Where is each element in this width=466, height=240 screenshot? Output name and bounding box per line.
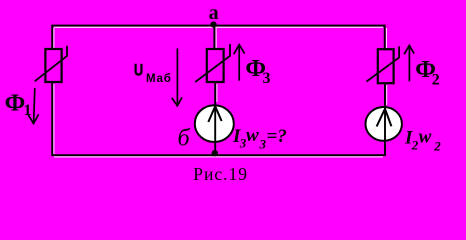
svg-text:а: а [209, 2, 219, 24]
svg-text:2: 2 [433, 138, 441, 153]
arrowhead of MMF source I2w2 [377, 109, 392, 127]
top wire (rail a) [52, 26, 384, 28]
MMF source I3w3 (winding circle) [195, 105, 234, 142]
label node a [209, 2, 219, 24]
svg-text:3: 3 [263, 70, 271, 87]
nonlinear magnetic element (left leg, flux F1) [35, 46, 67, 82]
svg-text:Ф: Ф [5, 90, 26, 116]
svg-text:2: 2 [411, 137, 419, 152]
voltage arrow U_Mab (downward) [172, 48, 182, 105]
wire: right branch through source down to rail b [385, 83, 387, 156]
label F1 [5, 90, 32, 118]
svg-text:=?: =? [267, 126, 287, 147]
wire: left branch lower segment [52, 82, 54, 156]
caption Ris.19 [193, 164, 248, 184]
nonlinear magnetic element (middle leg, flux F3) [195, 44, 230, 82]
wire: right branch upper stub [385, 25, 387, 51]
node b junction dot [212, 150, 218, 156]
label U_Mab [134, 61, 172, 85]
flux arrow F1 (downward) [28, 88, 38, 124]
svg-text:w: w [246, 125, 259, 146]
svg-text:Рис.19: Рис.19 [193, 164, 248, 184]
label F2 [415, 57, 440, 88]
flux arrow F3 (upward) [234, 45, 245, 81]
svg-text:U: U [134, 61, 143, 80]
wire: left branch upper stub [52, 25, 54, 50]
label F3 [245, 56, 270, 87]
label I2w2 [404, 127, 441, 154]
MMF source I2w2 (winding circle) [366, 107, 402, 141]
svg-text:б: б [178, 126, 191, 152]
flux arrow F2 (upward) [404, 45, 414, 81]
svg-text:Маб: Маб [146, 73, 172, 85]
svg-text:1: 1 [24, 102, 32, 119]
svg-text:2: 2 [432, 71, 440, 88]
svg-text:w: w [419, 127, 432, 148]
arrowhead of MMF source I3w3 [208, 106, 221, 122]
node a junction dot [210, 21, 216, 27]
bottom wire (rail b) [52, 155, 385, 157]
nonlinear magnetic element (right leg, flux F2) [367, 46, 400, 83]
wire: middle branch upper stub [214, 25, 216, 50]
svg-text:3: 3 [259, 136, 267, 151]
wire: middle branch through source down to rail b [215, 82, 217, 156]
label node b [178, 126, 191, 152]
label I3w3=? [232, 125, 287, 151]
